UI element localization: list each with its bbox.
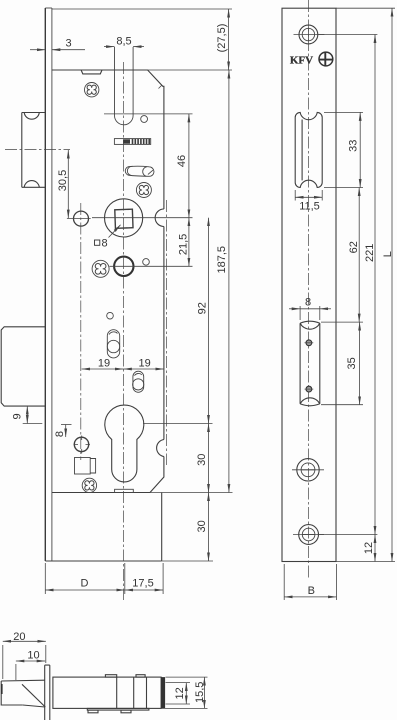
dimension D 17,5: [45, 563, 163, 594]
square hole below: [75, 458, 96, 475]
case right-edge notch upper: [155, 209, 164, 227]
dimension (27,5): [52, 9, 232, 70]
screw hole bottom: [293, 525, 324, 545]
strike slot front view: [300, 321, 320, 405]
screw mid-upper: [136, 183, 151, 198]
deadbolt side view: [1, 327, 45, 406]
slot small circle: [141, 116, 148, 123]
tab at case bottom: [115, 489, 134, 492]
dimension 30,5: [67, 150, 91, 219]
leader square 8: [109, 225, 121, 238]
slot dimple 1: [305, 340, 314, 346]
latch opening front view: [295, 112, 322, 187]
svg-text:35: 35: [346, 357, 358, 369]
svg-text:3: 3: [65, 38, 71, 50]
case right-edge notch lower: [157, 440, 164, 457]
svg-text:92: 92: [197, 302, 209, 314]
dimension L: [336, 8, 395, 561]
dimension 8 small hole: [61, 425, 72, 438]
face plate outline: [282, 8, 336, 561]
faceplate side view: [45, 8, 52, 561]
centerline latch axis: [5, 149, 70, 151]
dimension 8,5: [104, 46, 144, 48]
svg-text:L: L: [382, 251, 394, 257]
svg-text:9: 9: [12, 413, 24, 419]
dimension 9: [23, 406, 43, 423]
dimension 221: [318, 35, 378, 535]
KFV logo: [290, 52, 333, 66]
euro cylinder hole: [105, 405, 144, 482]
svg-text:(27,5): (27,5): [216, 24, 228, 53]
spindle slot: [115, 47, 134, 125]
case top notch: [81, 70, 102, 74]
svg-text:8,5: 8,5: [116, 35, 131, 47]
bold circle below follower: [114, 257, 133, 276]
dimension 30 upper: [208, 424, 210, 493]
svg-text:62: 62: [348, 241, 360, 253]
dimension 12 detail: [166, 683, 191, 704]
svg-text:10: 10: [27, 649, 39, 661]
dimension 92: [143, 218, 213, 424]
svg-text:19: 19: [138, 358, 150, 370]
lock case outline: [52, 70, 164, 493]
dimension 30 lower: [162, 493, 213, 562]
svg-text:8: 8: [101, 237, 107, 249]
svg-text:17,5: 17,5: [132, 578, 153, 590]
dimension 12 plate: [374, 535, 376, 562]
svg-text:12: 12: [363, 542, 375, 554]
dimension 20: [3, 641, 46, 679]
svg-text:19: 19: [98, 358, 110, 370]
svg-text:15,5: 15,5: [194, 682, 206, 703]
svg-text:33: 33: [347, 140, 359, 152]
dimension 33: [324, 112, 363, 187]
svg-text:20: 20: [13, 631, 25, 643]
dimension 21,5: [92, 218, 193, 267]
capsule rivet 2: [133, 371, 144, 392]
svg-text:221: 221: [364, 244, 376, 262]
svg-text:46: 46: [176, 155, 188, 167]
dimension 187,5: [150, 70, 233, 493]
svg-text:187,5: 187,5: [216, 246, 228, 274]
dimension 11,5: [295, 190, 322, 201]
svg-text:30,5: 30,5: [57, 170, 69, 191]
latch lever: [125, 165, 154, 177]
dimension B: [284, 564, 336, 600]
dimension 3: [30, 49, 85, 51]
screw hole mid: [292, 459, 324, 481]
lower case box: [45, 493, 161, 562]
centerline vertical main: [122, 62, 124, 600]
svg-text:B: B: [308, 585, 315, 597]
follower with square spindle hole: [105, 199, 143, 237]
latch body behind plate: [53, 675, 165, 713]
latch head wedge: [1, 680, 45, 707]
svg-text:11,5: 11,5: [299, 201, 320, 213]
dimension 19 19: [82, 368, 164, 370]
plate centerline: [307, 0, 309, 578]
dimension 8 strike: [289, 306, 331, 320]
svg-text:8: 8: [305, 296, 311, 308]
dimension 10: [16, 661, 45, 680]
latch reversing slider: [114, 139, 150, 145]
svg-text:30: 30: [196, 454, 208, 466]
screw hole top: [294, 25, 325, 44]
slot dimple 2: [305, 386, 314, 392]
small hole above capsule: [107, 312, 114, 319]
centerline right edge: [165, 200, 167, 465]
centerline vertical left column: [80, 203, 82, 460]
hole with crosshair above cylinder: [74, 436, 91, 454]
label square 8: [95, 237, 108, 249]
svg-text:21,5: 21,5: [178, 234, 190, 255]
small hole right of bold circle: [143, 259, 150, 266]
node hole left of follower: [74, 211, 89, 226]
screw bottom: [82, 478, 96, 492]
svg-text:12: 12: [174, 687, 186, 699]
svg-text:KFV: KFV: [290, 54, 313, 66]
latch bolt side view: [22, 113, 46, 188]
capsule rivet 1: [107, 330, 119, 358]
detail faceplate bar: [45, 665, 50, 720]
svg-text:8: 8: [54, 431, 66, 437]
dimension 15,5: [150, 677, 208, 708]
screw top: [85, 83, 99, 97]
svg-text:30: 30: [196, 520, 208, 532]
dimension 46: [104, 114, 193, 218]
screw mid-lower: [92, 260, 109, 277]
dimension 35: [321, 322, 363, 405]
dimension 62: [358, 188, 360, 323]
svg-text:D: D: [81, 578, 89, 590]
